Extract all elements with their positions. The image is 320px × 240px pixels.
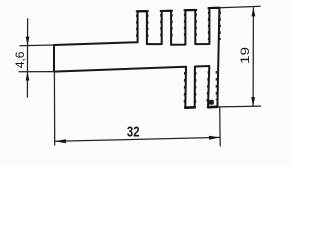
svg-text:19: 19 [238,47,252,64]
svg-text:32: 32 [127,124,140,141]
4,6 dimension line [26,18,28,97]
lower fin tips [185,106,195,109]
lower fins nubs [183,72,185,103]
19 arrow bottom (points down) [251,97,255,106]
extension line: slab bottom extended left (for 4,6) [19,71,55,73]
19 extension line top [220,6,261,7]
19 dimension line [252,7,254,106]
svg-text:4,6: 4,6 [15,52,27,69]
19 extension line bottom [217,105,261,108]
fin serration nubs, upper fins [137,12,221,104]
scan blob artifact on lower right fin [209,100,214,105]
32 arrow right (points right) [209,136,220,140]
extension line: top surface extended left (for 4,6) [20,44,55,47]
32 dimension line [55,137,220,141]
32 extension line left [53,72,55,146]
19 arrow top (points up) [252,7,256,16]
32 extension line right [219,107,222,147]
4,6 arrow upper (points down at top surface) [26,37,30,46]
fin tip caps (slightly wider than shafts) [137,8,220,108]
32 arrow left (points left) [55,139,66,143]
heatsink profile outline [54,8,219,108]
4,6 arrow lower (points up at slab bottom) [26,72,30,81]
